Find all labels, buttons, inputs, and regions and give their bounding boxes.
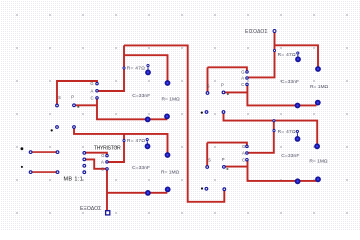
svg-text:C: C bbox=[242, 157, 245, 162]
svg-text:P: P bbox=[222, 157, 225, 162]
svg-text:G: G bbox=[101, 153, 104, 158]
svg-text:THYRISTOR: THYRISTOR bbox=[94, 146, 121, 152]
svg-text:P: P bbox=[221, 83, 224, 88]
svg-text:C: C bbox=[91, 96, 94, 101]
svg-text:MB 1:1: MB 1:1 bbox=[64, 176, 84, 182]
svg-text:R= 47Ω: R= 47Ω bbox=[127, 66, 145, 72]
svg-text:ΕΞΟΔΟΣ: ΕΞΟΔΟΣ bbox=[80, 206, 101, 212]
svg-text:C: C bbox=[241, 82, 244, 87]
svg-text:A: A bbox=[241, 76, 244, 81]
svg-text:A: A bbox=[101, 160, 104, 165]
svg-text:ΕΙΣΟΔΟΣ: ΕΙΣΟΔΟΣ bbox=[245, 29, 268, 35]
svg-text:R= 1MΩ: R= 1MΩ bbox=[162, 96, 181, 102]
svg-text:P: P bbox=[71, 95, 74, 100]
svg-text:G: G bbox=[90, 81, 93, 86]
svg-text:C=33nF: C=33nF bbox=[132, 93, 150, 99]
svg-text:R= 47Ω: R= 47Ω bbox=[127, 138, 145, 144]
svg-text:S: S bbox=[208, 158, 211, 163]
svg-text:C: C bbox=[101, 167, 104, 172]
svg-text:R= 47Ω: R= 47Ω bbox=[278, 52, 296, 58]
svg-text:S: S bbox=[207, 83, 210, 88]
svg-text:A: A bbox=[242, 151, 245, 156]
svg-text:G: G bbox=[242, 144, 245, 149]
svg-text:G: G bbox=[241, 70, 244, 75]
svg-text:S: S bbox=[58, 95, 61, 100]
svg-text:R= 47Ω: R= 47Ω bbox=[278, 129, 296, 135]
svg-text:A: A bbox=[91, 88, 94, 93]
svg-text:R= 1MΩ: R= 1MΩ bbox=[310, 84, 329, 90]
svg-text:R= 1MΩ: R= 1MΩ bbox=[309, 158, 328, 164]
svg-text:C=33nF: C=33nF bbox=[132, 165, 150, 171]
svg-text:C=33nF: C=33nF bbox=[281, 153, 299, 159]
svg-text:C=33nF: C=33nF bbox=[281, 79, 299, 85]
svg-text:R= 1MΩ: R= 1MΩ bbox=[161, 169, 180, 175]
